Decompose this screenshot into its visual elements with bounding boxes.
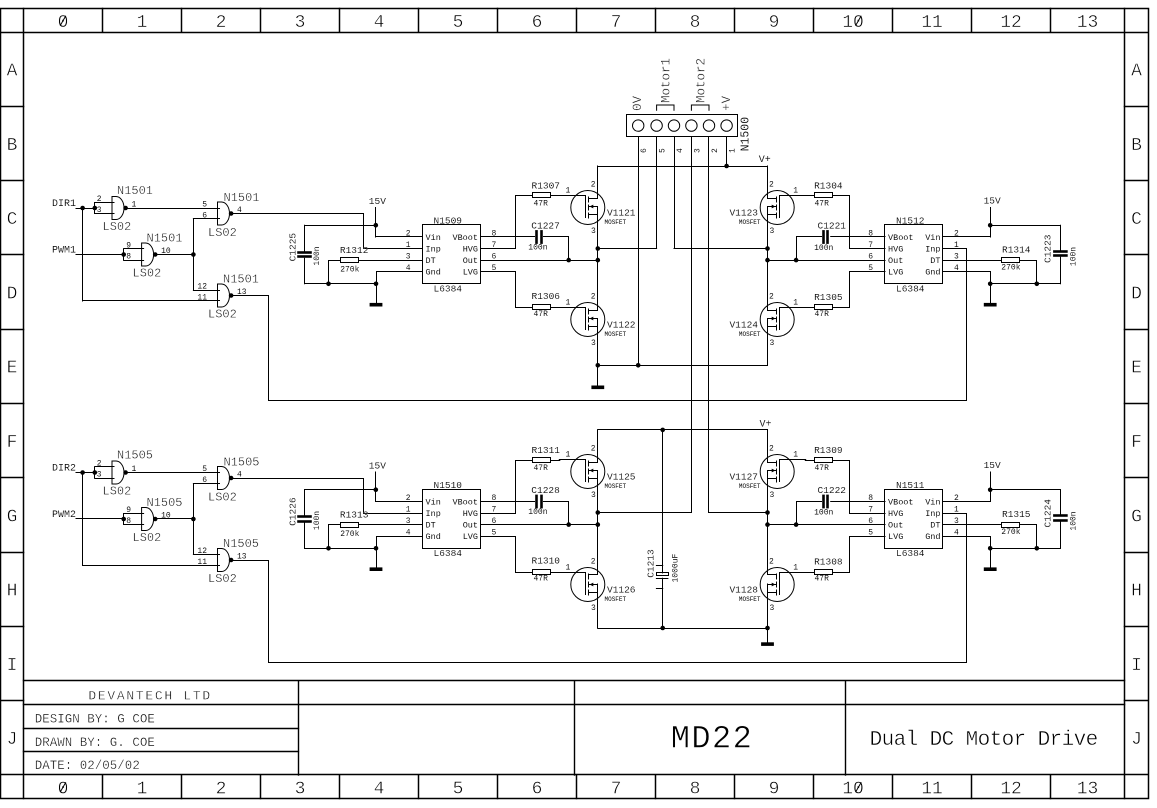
capacitor C1213 1000uF (662, 430, 664, 573)
svg-text:N1505: N1505 (223, 537, 259, 551)
svg-text:E: E (7, 359, 18, 379)
svg-text:V1123: V1123 (729, 208, 758, 219)
svg-text:2: 2 (769, 558, 774, 567)
resistor R1313 (341, 523, 359, 528)
svg-text:0V: 0V (631, 95, 645, 111)
wire V1124 source to bridge1 ground rail (767, 327, 769, 365)
resistor R1309 (815, 458, 833, 463)
svg-text:VBoot: VBoot (888, 497, 914, 507)
svg-text:N1501: N1501 (117, 184, 153, 198)
wire Gnd pin 4 to ground (377, 537, 423, 568)
wire bridge2 ground rail (598, 628, 768, 630)
svg-text:270k: 270k (1001, 264, 1020, 273)
svg-text:11: 11 (197, 294, 207, 303)
junction ground symbol on bridge2 rail (765, 626, 770, 631)
svg-text:VBoot: VBoot (888, 233, 914, 243)
svg-text:1: 1 (137, 13, 148, 33)
svg-text:V1128: V1128 (729, 585, 758, 596)
wire VBoot pin 8 through C1222 (831, 501, 885, 503)
bracket Motor2 pins 3-2 (691, 105, 709, 110)
svg-text:Motor2: Motor2 (695, 58, 709, 103)
svg-text:V1124: V1124 (729, 320, 758, 331)
wire bridge2 left node to connector pin 3 (598, 512, 692, 514)
wire R1314 right lead down to ground rail (1020, 261, 1037, 284)
wire bridge2 right node to connector pin 2 (709, 512, 768, 514)
svg-text:13: 13 (1077, 13, 1099, 33)
wire Out pin 6 to switching node (481, 524, 598, 526)
svg-text:100n: 100n (814, 509, 833, 518)
svg-text:Gnd: Gnd (426, 532, 441, 542)
wire R1309 to high-side gate (805, 460, 814, 462)
svg-text:47R: 47R (815, 464, 830, 473)
svg-text:3: 3 (770, 339, 775, 348)
svg-text:3: 3 (770, 604, 775, 613)
wire 15V to Vin pin 2 (944, 236, 991, 238)
wire R1304 to high-side gate (805, 195, 814, 197)
svg-text:C1224: C1224 (1043, 499, 1054, 528)
wire C1227 to switching node Out (544, 237, 569, 261)
svg-text:2: 2 (591, 181, 596, 190)
svg-text:47R: 47R (815, 310, 830, 319)
svg-text:R1308: R1308 (814, 557, 843, 568)
wire local ground rail (990, 548, 1060, 550)
svg-text:Inp: Inp (426, 509, 441, 519)
ground symbol (984, 303, 997, 307)
svg-text:1: 1 (954, 506, 959, 515)
svg-text:3: 3 (295, 780, 306, 800)
wire R1308 to low-side gate (805, 572, 814, 574)
wire N1505C out to N1505B pin6 and N1505D pin12 (193, 484, 195, 555)
svg-text:1: 1 (793, 187, 798, 196)
wire DIR1 vertical branch to pin 11 (82, 208, 84, 301)
wire PWM2 input (76, 518, 124, 520)
capacitor C1223 (1054, 250, 1066, 253)
wire C1221 to switching node Out (797, 237, 822, 261)
svg-text:6: 6 (532, 780, 543, 800)
junction gnd pin on ground rail (374, 546, 379, 551)
svg-text:DRAWN BY: G. COE: DRAWN BY: G. COE (35, 736, 155, 750)
capacitor C1221 (822, 231, 825, 242)
svg-text:LS02: LS02 (103, 485, 132, 499)
transistor Q4 (V1124 MOSFET) (760, 303, 794, 337)
NOR gate N1501C (N1501) (142, 243, 146, 266)
svg-text:A: A (7, 61, 18, 81)
junction 0V wire on bridge1 ground rail (636, 363, 641, 368)
svg-text:F: F (1131, 433, 1142, 453)
transistor Q5 (V1125 MOSFET) (571, 455, 605, 489)
svg-text:C1225: C1225 (287, 233, 298, 262)
svg-text:R1309: R1309 (814, 445, 843, 456)
wire HVG pin 7 to gate resistor (833, 461, 885, 514)
wire connector pin 3 to bridge2 left node (691, 137, 693, 512)
svg-text:Vin: Vin (426, 233, 441, 243)
wire N1501C out to N1501B pin6 and N1501D pin12 (193, 219, 195, 290)
svg-text:Out: Out (888, 256, 903, 266)
wire V1122 source to ground rail (597, 327, 599, 365)
svg-text:LS02: LS02 (208, 491, 237, 505)
connector N1500 pad circle pin 1 (721, 120, 732, 131)
svg-text:3: 3 (591, 604, 596, 613)
svg-text:3: 3 (591, 491, 596, 500)
wire 15V to C1226 top (305, 489, 376, 491)
svg-text:R1306: R1306 (532, 291, 561, 302)
svg-text:Out: Out (463, 521, 478, 531)
capacitor C1227 (535, 231, 538, 242)
svg-text:4: 4 (374, 780, 385, 800)
svg-text:PWM1: PWM1 (52, 246, 76, 257)
wire 15V to Vin pin 2 (376, 501, 423, 503)
capacitor C1225 (299, 251, 311, 254)
NOR gate N1501B (N1501) (218, 202, 222, 225)
svg-text:+V: +V (720, 95, 734, 111)
svg-text:MD22: MD22 (671, 720, 753, 757)
wire R1312 left lead down to ground rail (329, 261, 341, 284)
svg-text:V1125: V1125 (607, 472, 636, 483)
svg-text:270k: 270k (340, 265, 359, 274)
svg-text:I: I (1131, 656, 1142, 676)
junction ground symbol on bridge1 rail (596, 363, 601, 368)
svg-text:Vin: Vin (426, 497, 441, 507)
svg-text:V1127: V1127 (729, 472, 758, 483)
NOR gate N1505B (N1505) (218, 467, 222, 490)
svg-text:LS02: LS02 (133, 531, 162, 545)
svg-text:12: 12 (1000, 13, 1022, 33)
junction bridge2 left node motor tap (596, 510, 601, 515)
wire local ground rail (305, 548, 377, 550)
svg-text:VBoot: VBoot (452, 497, 478, 507)
svg-text:Inp: Inp (925, 509, 940, 519)
resistor R1310 (533, 570, 551, 575)
junction C1213 on bridge2 ground rail (660, 626, 665, 631)
svg-text:VBoot: VBoot (452, 233, 478, 243)
wire connector pin 2 to bridge2 right node (708, 137, 710, 512)
svg-text:V1126: V1126 (607, 585, 636, 596)
svg-text:LS02: LS02 (103, 220, 132, 234)
svg-text:3: 3 (591, 339, 596, 348)
svg-text:3: 3 (693, 148, 702, 153)
svg-text:Dual DC Motor Drive: Dual DC Motor Drive (870, 729, 1098, 752)
junction R1312 on ground rail (326, 282, 331, 287)
wire HVG pin 7 to gate resistor (833, 196, 885, 249)
wire N1505A output to N1505B pin 5 (128, 472, 220, 474)
wire C1222 to switching node Out (797, 502, 822, 525)
svg-text:DT: DT (930, 521, 940, 531)
svg-text:DEVANTECH LTD: DEVANTECH LTD (88, 689, 212, 704)
svg-text:L6384: L6384 (434, 284, 463, 295)
junction 15V / bypass cap (988, 223, 993, 228)
wire R1315 right lead down to ground rail (1020, 525, 1037, 549)
junction gnd pin on ground rail (988, 282, 993, 287)
connector N1500 pad circle pin 5 (651, 120, 662, 131)
svg-text:47R: 47R (534, 464, 549, 473)
wire C1228 to switching node Out (544, 502, 569, 525)
connector N1500 pad circle pin 3 (686, 120, 697, 131)
svg-text:L6384: L6384 (896, 284, 925, 295)
NOR gate N1505A (N1505) (112, 461, 116, 484)
svg-text:I: I (7, 656, 18, 676)
NOR gate N1505C (N1505) (142, 508, 146, 531)
wire C1224 bottom to ground rail (1060, 522, 1062, 549)
svg-text:Out: Out (888, 521, 903, 531)
wire bridge2 right node V1127 source to V1128 drain (767, 479, 769, 575)
gate-driver IC U-N1510 (N1510 L6384) (423, 490, 481, 549)
svg-text:L6384: L6384 (896, 548, 925, 559)
svg-text:MOSFET: MOSFET (739, 483, 761, 490)
wire 15V to C1224 top (990, 489, 1060, 491)
svg-text:9: 9 (769, 13, 780, 33)
svg-text:3: 3 (770, 491, 775, 500)
wire Gnd pin 4 to ground (377, 272, 423, 303)
wire 15V to Vin pin 2 (944, 501, 991, 503)
svg-text:L6384: L6384 (434, 548, 463, 559)
svg-text:Inp: Inp (426, 245, 441, 255)
svg-text:G: G (1131, 507, 1142, 527)
resistor R1315 (1002, 523, 1020, 528)
junction N1505C output (191, 517, 196, 522)
svg-text:C1213: C1213 (645, 549, 656, 578)
junction pin1 on V+ rail (724, 164, 729, 169)
svg-text:N1501: N1501 (147, 232, 183, 246)
svg-text:R1307: R1307 (532, 181, 561, 192)
svg-text:13: 13 (1077, 780, 1099, 800)
wire V1126 source to bridge2 ground rail (597, 592, 599, 629)
svg-text:6: 6 (640, 148, 649, 153)
svg-text:DT: DT (930, 256, 940, 266)
svg-text:1: 1 (406, 241, 411, 250)
wire VBoot pin 8 through C1228 (481, 501, 535, 503)
svg-text:100n: 100n (1069, 247, 1078, 266)
junction bridge2 right node Out (765, 522, 770, 527)
wire bridge1 right node to connector pin 4 (674, 248, 768, 250)
junction R1315 on ground rail (1035, 546, 1040, 551)
svg-text:2: 2 (769, 445, 774, 454)
wire N1501B output to N1509 Inp (233, 214, 423, 249)
svg-text:0: 0 (58, 780, 69, 800)
svg-text:15V: 15V (984, 196, 1001, 207)
svg-text:E: E (1131, 359, 1142, 379)
svg-text:N1509: N1509 (434, 216, 463, 227)
capacitor C1226 (299, 515, 311, 518)
wire local ground rail (305, 283, 377, 285)
svg-text:LS02: LS02 (208, 308, 237, 322)
svg-text:R1311: R1311 (532, 445, 561, 456)
svg-text:F: F (7, 433, 18, 453)
svg-text:6: 6 (202, 212, 207, 221)
svg-text:1: 1 (793, 564, 798, 573)
wire Out pin 6 to switching node (768, 260, 886, 262)
svg-text:MOSFET: MOSFET (739, 596, 761, 603)
wire R1305 to low-side gate (805, 307, 814, 309)
svg-text:LS02: LS02 (133, 267, 162, 281)
wire R1313 left lead down to ground rail (329, 525, 341, 549)
svg-text:7: 7 (611, 780, 622, 800)
wire N1505B output to N1510 Inp (233, 479, 423, 514)
wire R1314 to DT pin 3 (944, 260, 1002, 262)
junction C1213 on V+ rail (660, 428, 665, 433)
wire tie N1505C inputs (123, 514, 125, 525)
capacitor C1224 (1054, 514, 1066, 517)
svg-text:15V: 15V (984, 460, 1001, 471)
resistor R1308 (815, 570, 833, 575)
wire LVG pin 5 to gate resistor (833, 537, 885, 573)
svg-text:N1500: N1500 (739, 117, 752, 152)
wire VBoot pin 8 through C1221 (831, 236, 885, 238)
wire LVG pin 5 to gate resistor (481, 272, 533, 308)
svg-text:N1511: N1511 (896, 480, 925, 491)
svg-text:1: 1 (565, 564, 570, 573)
wire HVG pin 7 to gate resistor (481, 461, 533, 514)
svg-text:MOSFET: MOSFET (605, 331, 627, 338)
svg-text:100n: 100n (528, 244, 547, 253)
svg-text:8: 8 (492, 230, 497, 239)
svg-text:2: 2 (216, 780, 227, 800)
svg-text:1: 1 (565, 451, 570, 460)
svg-text:H: H (7, 582, 18, 602)
svg-text:MOSFET: MOSFET (739, 219, 761, 226)
connector N1500 pad circle pin 4 (668, 120, 679, 131)
junction C1221 on Out wire (794, 258, 799, 263)
svg-text:2: 2 (97, 460, 102, 469)
resistor R1307 (533, 193, 551, 198)
wire 15V to C1223 top (990, 225, 1060, 227)
svg-text:5: 5 (453, 780, 464, 800)
svg-text:HVG: HVG (888, 509, 903, 519)
svg-text:MOSFET: MOSFET (605, 596, 627, 603)
svg-text:Vin: Vin (925, 233, 940, 243)
wire R1313 to DT pin 3 (359, 524, 423, 526)
svg-text:2: 2 (406, 230, 411, 239)
svg-text:C1226: C1226 (287, 497, 298, 526)
wire PWM1 input (76, 254, 124, 256)
svg-text:1: 1 (565, 299, 570, 308)
svg-text:8: 8 (690, 13, 701, 33)
NOR gate N1501A (N1501) (112, 197, 116, 220)
svg-text:J: J (1131, 730, 1142, 750)
svg-text:R1314: R1314 (1002, 245, 1031, 256)
svg-text:C1228: C1228 (531, 485, 560, 496)
svg-text:Motor1: Motor1 (660, 58, 674, 103)
svg-text:MOSFET: MOSFET (739, 331, 761, 338)
wire 15V to Vin pin 2 (376, 236, 423, 238)
svg-text:C1227: C1227 (531, 221, 560, 232)
svg-text:DT: DT (426, 256, 436, 266)
svg-text:47R: 47R (534, 575, 549, 584)
svg-text:1: 1 (793, 299, 798, 308)
junction 15V / bypass cap (988, 488, 993, 493)
wire V1128 source to bridge2 ground rail (767, 592, 769, 629)
svg-text:D: D (1131, 284, 1142, 304)
svg-text:2: 2 (769, 181, 774, 190)
svg-text:R1313: R1313 (340, 510, 369, 521)
svg-text:V+: V+ (759, 155, 771, 166)
wire C1225 bottom to ground rail (304, 258, 306, 284)
wire 15V to C1225 top (305, 225, 376, 227)
wire N1501D output to N1512 Inp (long route) (233, 249, 967, 401)
svg-text:2: 2 (769, 293, 774, 302)
transistor Q8 (V1128 MOSFET) (760, 568, 794, 602)
svg-text:DESIGN BY: G COE: DESIGN BY: G COE (35, 712, 155, 726)
resistor R1314 (1002, 258, 1020, 263)
svg-text:C: C (7, 210, 18, 230)
capacitor C1222 (822, 496, 825, 507)
svg-text:C1221: C1221 (818, 221, 847, 232)
svg-text:C1223: C1223 (1043, 234, 1054, 263)
transistor Q2 (V1122 MOSFET) (571, 303, 605, 337)
transistor Q6 (V1126 MOSFET) (571, 568, 605, 602)
svg-text:MOSFET: MOSFET (605, 483, 627, 490)
svg-text:Gnd: Gnd (426, 268, 441, 278)
resistor R1312 (341, 258, 359, 263)
svg-text:2: 2 (954, 230, 959, 239)
svg-text:PWM2: PWM2 (52, 510, 76, 521)
svg-text:DIR1: DIR1 (52, 199, 76, 210)
svg-text:V1121: V1121 (607, 208, 636, 219)
wire LVG pin 5 to gate resistor (481, 537, 533, 573)
svg-text:2: 2 (711, 148, 720, 153)
svg-text:LVG: LVG (463, 268, 478, 278)
svg-text:1: 1 (954, 241, 959, 250)
junction bridge1 left node Out (596, 258, 601, 263)
NOR gate N1501D (N1501) (218, 284, 222, 307)
svg-text:15V: 15V (369, 196, 386, 207)
wire bridge1 right node V1123 source to V1124 drain (767, 215, 769, 310)
svg-text:MOSFET: MOSFET (605, 219, 627, 226)
wire N1505D output to N1511 Inp (long route) (233, 514, 967, 663)
svg-text:100n: 100n (313, 246, 322, 265)
svg-text:N1501: N1501 (223, 273, 259, 287)
wire N1501A output to N1501B pin 5 (128, 208, 220, 210)
ground symbol (984, 567, 997, 571)
svg-text:N1505: N1505 (117, 449, 153, 463)
wire VBoot pin 8 through C1227 (481, 236, 535, 238)
wire tie N1505A inputs (94, 467, 96, 478)
NOR gate N1505D (N1505) (218, 549, 222, 572)
svg-text:8: 8 (868, 230, 873, 239)
svg-text:11: 11 (921, 780, 943, 800)
resistor R1305 (815, 305, 833, 310)
wire bridge1 ground rail (598, 365, 768, 367)
svg-text:12: 12 (1000, 780, 1022, 800)
junction R1314 on ground rail (1035, 282, 1040, 287)
svg-text:Gnd: Gnd (925, 532, 940, 542)
wire bridge1 left node to connector pin 5 (598, 248, 657, 250)
wire LVG pin 5 to gate resistor (833, 272, 885, 308)
wire Out pin 6 to switching node (481, 260, 598, 262)
wire connector pin 1 to V+ rail (726, 137, 728, 166)
frame column dividers (102, 9, 104, 33)
svg-text:V+: V+ (760, 420, 772, 431)
gate-driver IC U-N1511 (N1511 L6384) (885, 490, 943, 549)
svg-text:Out: Out (463, 256, 478, 266)
svg-text:H: H (1131, 582, 1142, 602)
wire R1312 to DT pin 3 (359, 260, 423, 262)
transistor Q7 (V1127 MOSFET) (760, 455, 794, 489)
ground symbol (370, 567, 383, 571)
wire R1306 to low-side gate (551, 307, 560, 309)
svg-text:11: 11 (921, 13, 943, 33)
wire Gnd pin 4 to ground (944, 537, 991, 568)
junction DIR2 branch (80, 470, 85, 475)
svg-text:LS02: LS02 (208, 226, 237, 240)
svg-text:N1501: N1501 (224, 191, 260, 205)
svg-text:A: A (1131, 61, 1142, 81)
wire bridge1 left node V1121 source to V1122 drain (597, 215, 599, 310)
svg-text:270k: 270k (340, 530, 359, 539)
wire connector pin 4 to bridge1 right node (674, 137, 676, 248)
wire connector pin 6 to 0V ground rail (638, 137, 640, 365)
wire local ground rail (990, 283, 1060, 285)
capacitor C1228 (535, 496, 538, 507)
